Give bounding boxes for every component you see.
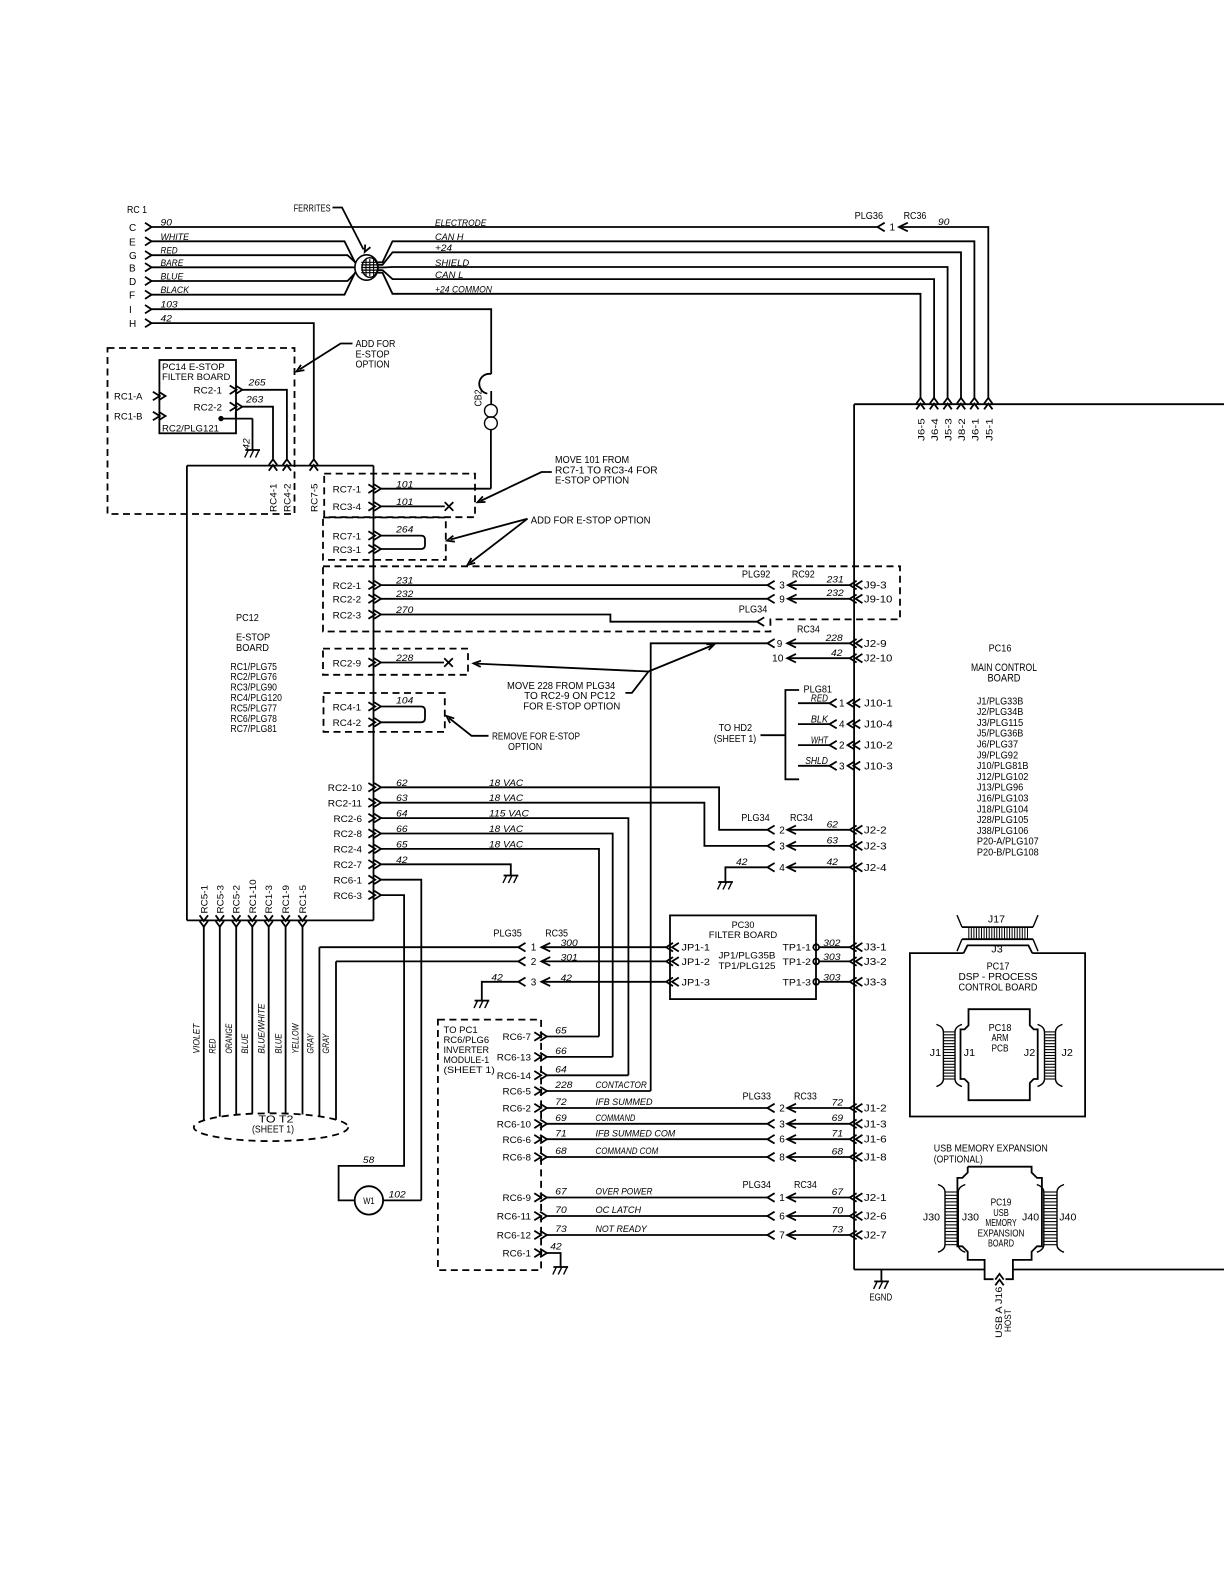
svg-text:66: 66 xyxy=(555,1046,567,1057)
svg-text:RC1-A: RC1-A xyxy=(114,392,143,403)
connector J40 band xyxy=(1037,1185,1044,1253)
svg-text:(OPTIONAL): (OPTIONAL) xyxy=(934,1154,983,1165)
wire 73 to J2-7 xyxy=(787,1231,796,1240)
connector J1 band (PC18 left) xyxy=(936,1024,943,1086)
svg-text:RC2-3: RC2-3 xyxy=(333,610,362,621)
svg-text:OPTION: OPTION xyxy=(356,360,390,371)
svg-text:(SHEET 1): (SHEET 1) xyxy=(444,1065,495,1076)
wire RC6-1 row J1-8 left xyxy=(547,1156,768,1158)
svg-text:10: 10 xyxy=(772,654,784,665)
PLG81 bracket xyxy=(761,734,786,736)
svg-text:IFB SUMMED: IFB SUMMED xyxy=(596,1097,653,1108)
svg-text:J10-1: J10-1 xyxy=(864,699,893,710)
board pin J10-1 xyxy=(848,699,855,708)
svg-text:RC5-3: RC5-3 xyxy=(215,885,226,914)
wire RC6-1 row J1-6 left xyxy=(547,1138,768,1140)
connector RC1-5 xyxy=(298,921,306,927)
svg-text:RC33: RC33 xyxy=(794,1091,817,1102)
svg-text:RC6-9: RC6-9 xyxy=(503,1193,532,1204)
connector J30 band xyxy=(938,1185,945,1253)
svg-text:YELLOW: YELLOW xyxy=(290,1022,300,1053)
wire WHITE through ferrite to J connector xyxy=(152,241,975,399)
circuit breaker CB2 wire xyxy=(490,391,492,404)
dashed option box RC2-9 xyxy=(323,649,468,675)
svg-text:RC6-8: RC6-8 xyxy=(503,1153,532,1164)
svg-text:ORANGE: ORANGE xyxy=(224,1023,234,1054)
board pin J1-3 xyxy=(850,1120,857,1129)
board pin J2-3 xyxy=(850,842,857,851)
svg-text:RC6/PLG78: RC6/PLG78 xyxy=(231,714,278,725)
svg-text:102: 102 xyxy=(389,1190,407,1201)
svg-text:BLUE: BLUE xyxy=(240,1033,250,1054)
svg-text:263: 263 xyxy=(245,395,264,406)
svg-text:3: 3 xyxy=(779,1119,785,1130)
svg-text:J10-2: J10-2 xyxy=(864,741,893,752)
svg-text:RC36: RC36 xyxy=(904,211,927,222)
svg-text:(SHEET 1): (SHEET 1) xyxy=(714,734,757,745)
board pin JP1-3 xyxy=(666,978,673,987)
wire SHLD PLG81 xyxy=(798,765,830,767)
connector RC1-3 xyxy=(265,921,273,927)
svg-text:J1/PLG33B: J1/PLG33B xyxy=(977,696,1024,707)
connector PLG34 pin 2 xyxy=(767,826,774,835)
svg-text:RC4-1: RC4-1 xyxy=(269,484,280,513)
svg-text:P20-A/PLG107: P20-A/PLG107 xyxy=(977,837,1039,848)
svg-text:3: 3 xyxy=(779,841,785,852)
connector RC5-1 xyxy=(200,921,208,927)
svg-text:H: H xyxy=(129,319,136,330)
svg-text:231: 231 xyxy=(826,574,844,585)
svg-text:RC2-10: RC2-10 xyxy=(328,783,362,794)
connector pin E chevron xyxy=(145,237,152,245)
svg-text:J40: J40 xyxy=(1022,1213,1040,1224)
svg-text:69: 69 xyxy=(832,1113,844,1124)
svg-text:RC4-2: RC4-2 xyxy=(282,484,293,513)
svg-text:HOST: HOST xyxy=(1003,1309,1014,1332)
board PC14 E-STOP FILTER BOARD box xyxy=(159,360,236,433)
svg-text:RC7-5: RC7-5 xyxy=(309,484,320,513)
wire 42 RC6-1 to ground xyxy=(547,1253,561,1267)
dashed option box around PC14 E-stop filter board xyxy=(108,348,295,514)
connector PLG34 pin 1 xyxy=(767,1193,774,1202)
ground symbol EGND xyxy=(874,1280,889,1282)
svg-text:ADD FOR E-STOP OPTION: ADD FOR E-STOP OPTION xyxy=(531,515,651,526)
connector PLG33 pin 8 xyxy=(767,1153,774,1162)
svg-text:90: 90 xyxy=(938,217,950,228)
svg-text:TO HD2: TO HD2 xyxy=(719,723,753,734)
svg-text:301: 301 xyxy=(561,952,578,963)
connector RC7-5 xyxy=(310,459,318,465)
svg-text:J2-10: J2-10 xyxy=(864,654,893,665)
svg-text:JP1-3: JP1-3 xyxy=(682,977,711,988)
cable trunk wire left vertical xyxy=(186,466,188,921)
connector PLG92 pin 3 xyxy=(767,581,774,590)
connector PLG92 pin 9 xyxy=(767,595,774,604)
svg-text:RC6-7: RC6-7 xyxy=(503,1032,532,1043)
wire VIOLET to T2 xyxy=(203,927,205,1121)
wire BLUE to T2 xyxy=(251,927,253,1114)
wire 65 RC6-7 xyxy=(547,1036,599,1038)
wire RC6-1 row J1-2 left xyxy=(547,1107,768,1109)
svg-text:RC5/PLG77: RC5/PLG77 xyxy=(231,703,278,714)
dashed option box 101 xyxy=(324,474,475,518)
ground symbol RC2-7 xyxy=(504,875,519,877)
svg-text:RC1-B: RC1-B xyxy=(114,412,143,423)
dashed box TO PC1 RC6/PLG6 INVERTER MODULE-1 (SHEET 1) xyxy=(438,1020,541,1271)
svg-text:RC1-5: RC1-5 xyxy=(298,885,309,914)
wire RED through ferrite to J connector xyxy=(152,252,962,399)
wire 42 RC2-7 to ground xyxy=(381,864,511,875)
svg-text:RC34: RC34 xyxy=(797,625,820,636)
board pin J2-6 xyxy=(850,1212,857,1221)
add-estop lower leader arrow to RC2 box xyxy=(470,519,528,563)
svg-text:COMMAND: COMMAND xyxy=(596,1113,636,1124)
circuit breaker CB2 arc xyxy=(479,374,491,394)
connector J16 chevron xyxy=(995,1274,1003,1280)
svg-text:58: 58 xyxy=(363,1155,375,1166)
svg-text:6: 6 xyxy=(779,1212,785,1223)
svg-text:CB2: CB2 xyxy=(474,389,485,406)
board pins J6-5 J6-4 J5-3 J8-2 J6-1 J5-1 xyxy=(916,398,924,404)
svg-text:J6/PLG37: J6/PLG37 xyxy=(977,740,1019,751)
svg-text:1: 1 xyxy=(531,943,537,954)
add-estop lower leader arrow to 264 box xyxy=(451,519,528,540)
wire 42 J2-10 xyxy=(787,654,796,663)
svg-text:42: 42 xyxy=(827,857,839,868)
svg-text:RC2/PLG76: RC2/PLG76 xyxy=(231,672,278,683)
svg-text:RED: RED xyxy=(208,1038,218,1053)
svg-text:42: 42 xyxy=(736,857,748,868)
svg-text:64: 64 xyxy=(555,1065,566,1076)
wire ORANGE to T2 xyxy=(235,927,237,1115)
svg-text:GRAY: GRAY xyxy=(305,1033,315,1054)
connector PLG35 pin 2 xyxy=(518,957,525,966)
svg-text:J1-6: J1-6 xyxy=(864,1135,887,1146)
wire BARE through ferrite to J connector xyxy=(152,267,948,400)
ground EGND stub xyxy=(880,1270,882,1282)
connector RC5-3 xyxy=(216,921,224,927)
wire CB2 to RC7-1 101 xyxy=(490,430,492,489)
svg-text:4: 4 xyxy=(779,863,785,874)
svg-text:PLG34: PLG34 xyxy=(741,813,770,824)
svg-text:J1-2: J1-2 xyxy=(864,1104,887,1115)
svg-text:PLG35: PLG35 xyxy=(493,929,522,940)
svg-text:RC6-2: RC6-2 xyxy=(503,1104,532,1115)
svg-text:BLUE/WHITE: BLUE/WHITE xyxy=(257,1003,267,1054)
svg-text:J5-3: J5-3 xyxy=(944,418,955,441)
svg-text:RC2-1: RC2-1 xyxy=(194,386,223,397)
svg-text:42: 42 xyxy=(561,973,573,984)
connector PLG35 pin 3 xyxy=(518,978,525,987)
cable trunk bottom horizontal xyxy=(187,919,374,921)
svg-text:RC3-1: RC3-1 xyxy=(333,545,362,556)
svg-text:RC2-6: RC2-6 xyxy=(334,814,363,825)
connector PLG81 pin 1 xyxy=(830,699,837,708)
wire RED to T2 xyxy=(219,927,221,1117)
wire BLACK through ferrite to J connector xyxy=(152,273,921,400)
svg-text:42: 42 xyxy=(831,648,843,659)
connector PLG34 pin 6 xyxy=(767,1212,774,1221)
board pin JP1-2 xyxy=(666,957,673,966)
wire RED PLG81 xyxy=(798,702,830,704)
svg-text:J10-4: J10-4 xyxy=(864,720,893,731)
connector pin I chevron xyxy=(145,305,152,313)
wire row J2-7 left xyxy=(547,1234,768,1236)
svg-text:RC7/PLG81: RC7/PLG81 xyxy=(231,724,278,735)
ground symbol PC14 xyxy=(245,449,260,451)
board pin J10-3 xyxy=(848,762,855,771)
svg-text:RC2-2: RC2-2 xyxy=(333,595,362,606)
svg-text:264: 264 xyxy=(395,525,413,536)
connector pin G chevron xyxy=(145,251,152,259)
svg-text:PC17: PC17 xyxy=(987,962,1010,973)
svg-text:J1: J1 xyxy=(964,1048,976,1059)
svg-text:RC7-1: RC7-1 xyxy=(333,485,362,496)
board pin J1-8 xyxy=(850,1153,857,1162)
wire 72 to J1-2 xyxy=(787,1104,796,1113)
dashed option box 104 xyxy=(324,693,445,732)
svg-text:303: 303 xyxy=(823,973,841,984)
wire 303 to J3-3 xyxy=(819,981,850,983)
board PC17 DSP - PROCESS CONTROL BOARD box xyxy=(910,953,1085,1116)
wire 90 ELECTRODE left segment xyxy=(152,226,878,228)
svg-text:J3-1: J3-1 xyxy=(864,943,887,954)
svg-text:BOARD: BOARD xyxy=(988,672,1021,684)
svg-text:PLG33: PLG33 xyxy=(743,1091,772,1102)
wire 62 to J2-2 xyxy=(787,826,796,835)
svg-text:265: 265 xyxy=(247,378,266,389)
svg-text:228: 228 xyxy=(554,1080,573,1091)
board pin J9-10 xyxy=(850,595,857,604)
wire 65 vertical xyxy=(381,849,599,1037)
ferrite core xyxy=(355,255,378,280)
svg-text:JP1-2: JP1-2 xyxy=(682,957,711,968)
svg-text:RC6-6: RC6-6 xyxy=(503,1135,532,1146)
svg-text:USB MEMORY EXPANSION: USB MEMORY EXPANSION xyxy=(934,1144,1048,1155)
svg-text:RC92: RC92 xyxy=(792,570,815,581)
svg-text:J9-3: J9-3 xyxy=(864,581,887,592)
wire 66 RC6-13 xyxy=(547,1056,613,1058)
wire 66 vertical xyxy=(381,834,613,1057)
svg-text:J6-1: J6-1 xyxy=(970,418,981,441)
connector pin F chevron xyxy=(145,291,152,299)
connector PLG35 pin 1 xyxy=(518,943,525,952)
wire BLUE through ferrite to J connector xyxy=(152,270,935,399)
svg-text:FILTER BOARD: FILTER BOARD xyxy=(162,372,231,383)
svg-text:J3-3: J3-3 xyxy=(864,977,887,988)
dashed option box RC2 / J9 xyxy=(323,566,900,631)
svg-text:RC6-14: RC6-14 xyxy=(497,1071,531,1082)
connector RC5-2 xyxy=(232,921,240,927)
svg-text:BOARD: BOARD xyxy=(236,643,269,654)
move-228 arrow to J2-9 wire xyxy=(649,646,713,672)
cable trunk wire right vertical xyxy=(373,466,375,921)
ferrites leader arrow xyxy=(333,208,364,250)
svg-text:RC4/PLG120: RC4/PLG120 xyxy=(231,693,283,704)
wire RC6-1 to W1 102 xyxy=(381,880,421,1201)
wire 300 to T2 xyxy=(318,947,320,1116)
svg-text:42: 42 xyxy=(550,1242,562,1253)
wire RC6-1 row J1-3 left xyxy=(547,1123,768,1125)
svg-text:69: 69 xyxy=(555,1113,567,1124)
svg-text:RC2-11: RC2-11 xyxy=(328,798,362,809)
svg-text:J2-9: J2-9 xyxy=(864,639,887,650)
wire BLUE to T2 xyxy=(285,927,287,1114)
svg-text:BOARD: BOARD xyxy=(988,1239,1014,1250)
svg-text:PC12: PC12 xyxy=(236,613,259,624)
svg-text:J1-3: J1-3 xyxy=(864,1119,887,1130)
wire 103 to CB2 xyxy=(152,309,492,374)
wire 64 RC6-14 xyxy=(547,1074,629,1076)
svg-text:BLK: BLK xyxy=(811,714,829,725)
svg-text:PCB: PCB xyxy=(991,1043,1008,1054)
svg-text:6: 6 xyxy=(779,1135,785,1146)
connector PLG81 pin 2 xyxy=(830,741,837,750)
svg-text:P20-B/PLG108: P20-B/PLG108 xyxy=(977,848,1039,859)
connector J3 on PC17 xyxy=(964,945,1033,953)
svg-text:TP1-3: TP1-3 xyxy=(783,977,812,988)
wire YELLOW to T2 xyxy=(302,927,304,1115)
move-228 leader xyxy=(625,672,648,693)
wire 64 vertical xyxy=(381,818,628,1075)
connector pin C chevron xyxy=(145,223,152,231)
wire 300 to JP1-1 xyxy=(541,943,550,952)
wire 301 horizontal xyxy=(336,960,518,962)
svg-text:RC 1: RC 1 xyxy=(127,205,147,216)
board pin J10-2 xyxy=(848,741,855,750)
board PC30 FILTER BOARD box xyxy=(670,915,816,999)
svg-text:J12/PLG102: J12/PLG102 xyxy=(977,772,1029,783)
board PC19 USB MEMORY EXPANSION BOARD outline xyxy=(968,1167,1042,1280)
svg-text:72: 72 xyxy=(555,1097,567,1108)
junction dot RC2-2 ground tap xyxy=(219,416,223,420)
svg-text:RC34: RC34 xyxy=(794,1180,817,1191)
board pin J3-2 xyxy=(850,957,857,966)
wire 303 to J3-2 xyxy=(819,960,850,962)
svg-text:72: 72 xyxy=(832,1097,844,1108)
svg-text:J6-4: J6-4 xyxy=(930,418,941,441)
board pin J2-2 xyxy=(850,826,857,835)
svg-text:RC2-8: RC2-8 xyxy=(334,829,363,840)
svg-text:J28/PLG105: J28/PLG105 xyxy=(977,815,1029,826)
connector PLG33 pin 6 xyxy=(767,1135,774,1144)
svg-text:RC2/PLG121: RC2/PLG121 xyxy=(162,424,219,435)
svg-text:232: 232 xyxy=(826,588,845,599)
wire 70 to J2-6 xyxy=(787,1212,796,1221)
svg-text:RC1-10: RC1-10 xyxy=(248,879,259,913)
svg-text:PLG36: PLG36 xyxy=(855,211,884,222)
svg-text:J2-2: J2-2 xyxy=(864,825,887,836)
svg-text:I: I xyxy=(129,305,132,316)
board pin J2-4 xyxy=(850,863,857,872)
connector PLG33 pin 3 xyxy=(767,1120,774,1129)
svg-text:9: 9 xyxy=(777,639,783,650)
wire 228 right segment xyxy=(787,639,796,648)
svg-text:RC34: RC34 xyxy=(790,813,813,824)
ground symbol PLG35 xyxy=(475,1000,490,1002)
svg-text:JP1-1: JP1-1 xyxy=(682,943,711,954)
svg-text:J2-6: J2-6 xyxy=(864,1212,887,1223)
board pin J2-1 xyxy=(850,1193,857,1202)
svg-text:68: 68 xyxy=(555,1146,567,1157)
board pin J2-7 xyxy=(850,1231,857,1240)
connector PLG34 pin (270) xyxy=(757,617,764,626)
svg-text:RC4-2: RC4-2 xyxy=(333,718,362,729)
svg-text:228: 228 xyxy=(825,633,844,644)
connector PLG81 pin 4 xyxy=(830,720,837,729)
svg-text:RC6-3: RC6-3 xyxy=(334,891,363,902)
wire row J2-6 left xyxy=(547,1215,768,1217)
svg-text:67: 67 xyxy=(832,1187,844,1198)
svg-text:J10-3: J10-3 xyxy=(864,761,893,772)
connector pin D chevron xyxy=(145,277,152,285)
svg-text:PLG34: PLG34 xyxy=(743,1180,772,1191)
svg-text:J40: J40 xyxy=(1059,1213,1077,1224)
svg-text:J1-8: J1-8 xyxy=(864,1153,887,1164)
svg-text:J18/PLG104: J18/PLG104 xyxy=(977,804,1029,815)
connector J2 band (PC18 right) xyxy=(1038,1024,1045,1086)
svg-text:RC6-11: RC6-11 xyxy=(497,1212,531,1223)
svg-text:OVER POWER: OVER POWER xyxy=(596,1187,653,1198)
svg-text:RC2-4: RC2-4 xyxy=(334,845,363,856)
svg-text:B: B xyxy=(129,263,136,274)
svg-text:3: 3 xyxy=(779,581,785,592)
svg-text:VIOLET: VIOLET xyxy=(192,1022,202,1053)
wire 42 to RC7-5 xyxy=(152,323,314,459)
svg-text:J2: J2 xyxy=(1062,1048,1074,1059)
wire 42 to JP1-3 xyxy=(541,978,550,987)
svg-text:C: C xyxy=(129,223,136,234)
connector PLG34 pin 3 xyxy=(767,842,774,851)
svg-text:J5-1: J5-1 xyxy=(984,418,995,441)
svg-text:CONTACTOR: CONTACTOR xyxy=(596,1080,647,1091)
wire WHT PLG81 xyxy=(798,744,830,746)
connector pin H chevron xyxy=(145,319,152,327)
svg-text:1: 1 xyxy=(890,223,896,234)
cable trunk wire horizontal xyxy=(187,465,374,467)
svg-text:RC6-13: RC6-13 xyxy=(497,1053,531,1064)
svg-text:J6-5: J6-5 xyxy=(917,418,928,441)
connector RC1-9 xyxy=(281,921,289,927)
svg-text:RC6-12: RC6-12 xyxy=(497,1231,531,1242)
svg-text:RC6-10: RC6-10 xyxy=(497,1120,531,1131)
svg-text:303: 303 xyxy=(823,952,841,963)
wire 300 horizontal xyxy=(319,946,518,948)
connector PLG36 pin 1 xyxy=(878,223,885,232)
svg-text:J38/PLG106: J38/PLG106 xyxy=(977,826,1029,837)
svg-text:73: 73 xyxy=(555,1224,567,1235)
wire BLK PLG81 xyxy=(798,723,830,725)
wire 228 RC6-5 xyxy=(547,1090,651,1092)
svg-text:OC LATCH: OC LATCH xyxy=(596,1205,642,1216)
svg-text:7: 7 xyxy=(779,1231,785,1242)
svg-text:104: 104 xyxy=(396,696,413,707)
svg-text:2: 2 xyxy=(779,1104,785,1115)
connector PLG34 pin 4 xyxy=(767,863,774,872)
svg-text:3: 3 xyxy=(531,977,537,988)
ground symbol PLG34 pin4 xyxy=(718,881,733,883)
svg-text:EGND: EGND xyxy=(869,1293,892,1304)
svg-text:J2/PLG34B: J2/PLG34B xyxy=(977,707,1024,718)
svg-text:2: 2 xyxy=(531,957,537,968)
svg-text:62: 62 xyxy=(827,819,839,830)
svg-text:J2-3: J2-3 xyxy=(864,841,887,852)
wire 63 to PLG34 pin3 xyxy=(381,803,767,846)
svg-text:RC2-2: RC2-2 xyxy=(194,403,223,414)
svg-text:TP1/PLG125: TP1/PLG125 xyxy=(719,961,776,972)
svg-text:RC6-1: RC6-1 xyxy=(503,1249,532,1260)
svg-text:1: 1 xyxy=(779,1193,785,1204)
